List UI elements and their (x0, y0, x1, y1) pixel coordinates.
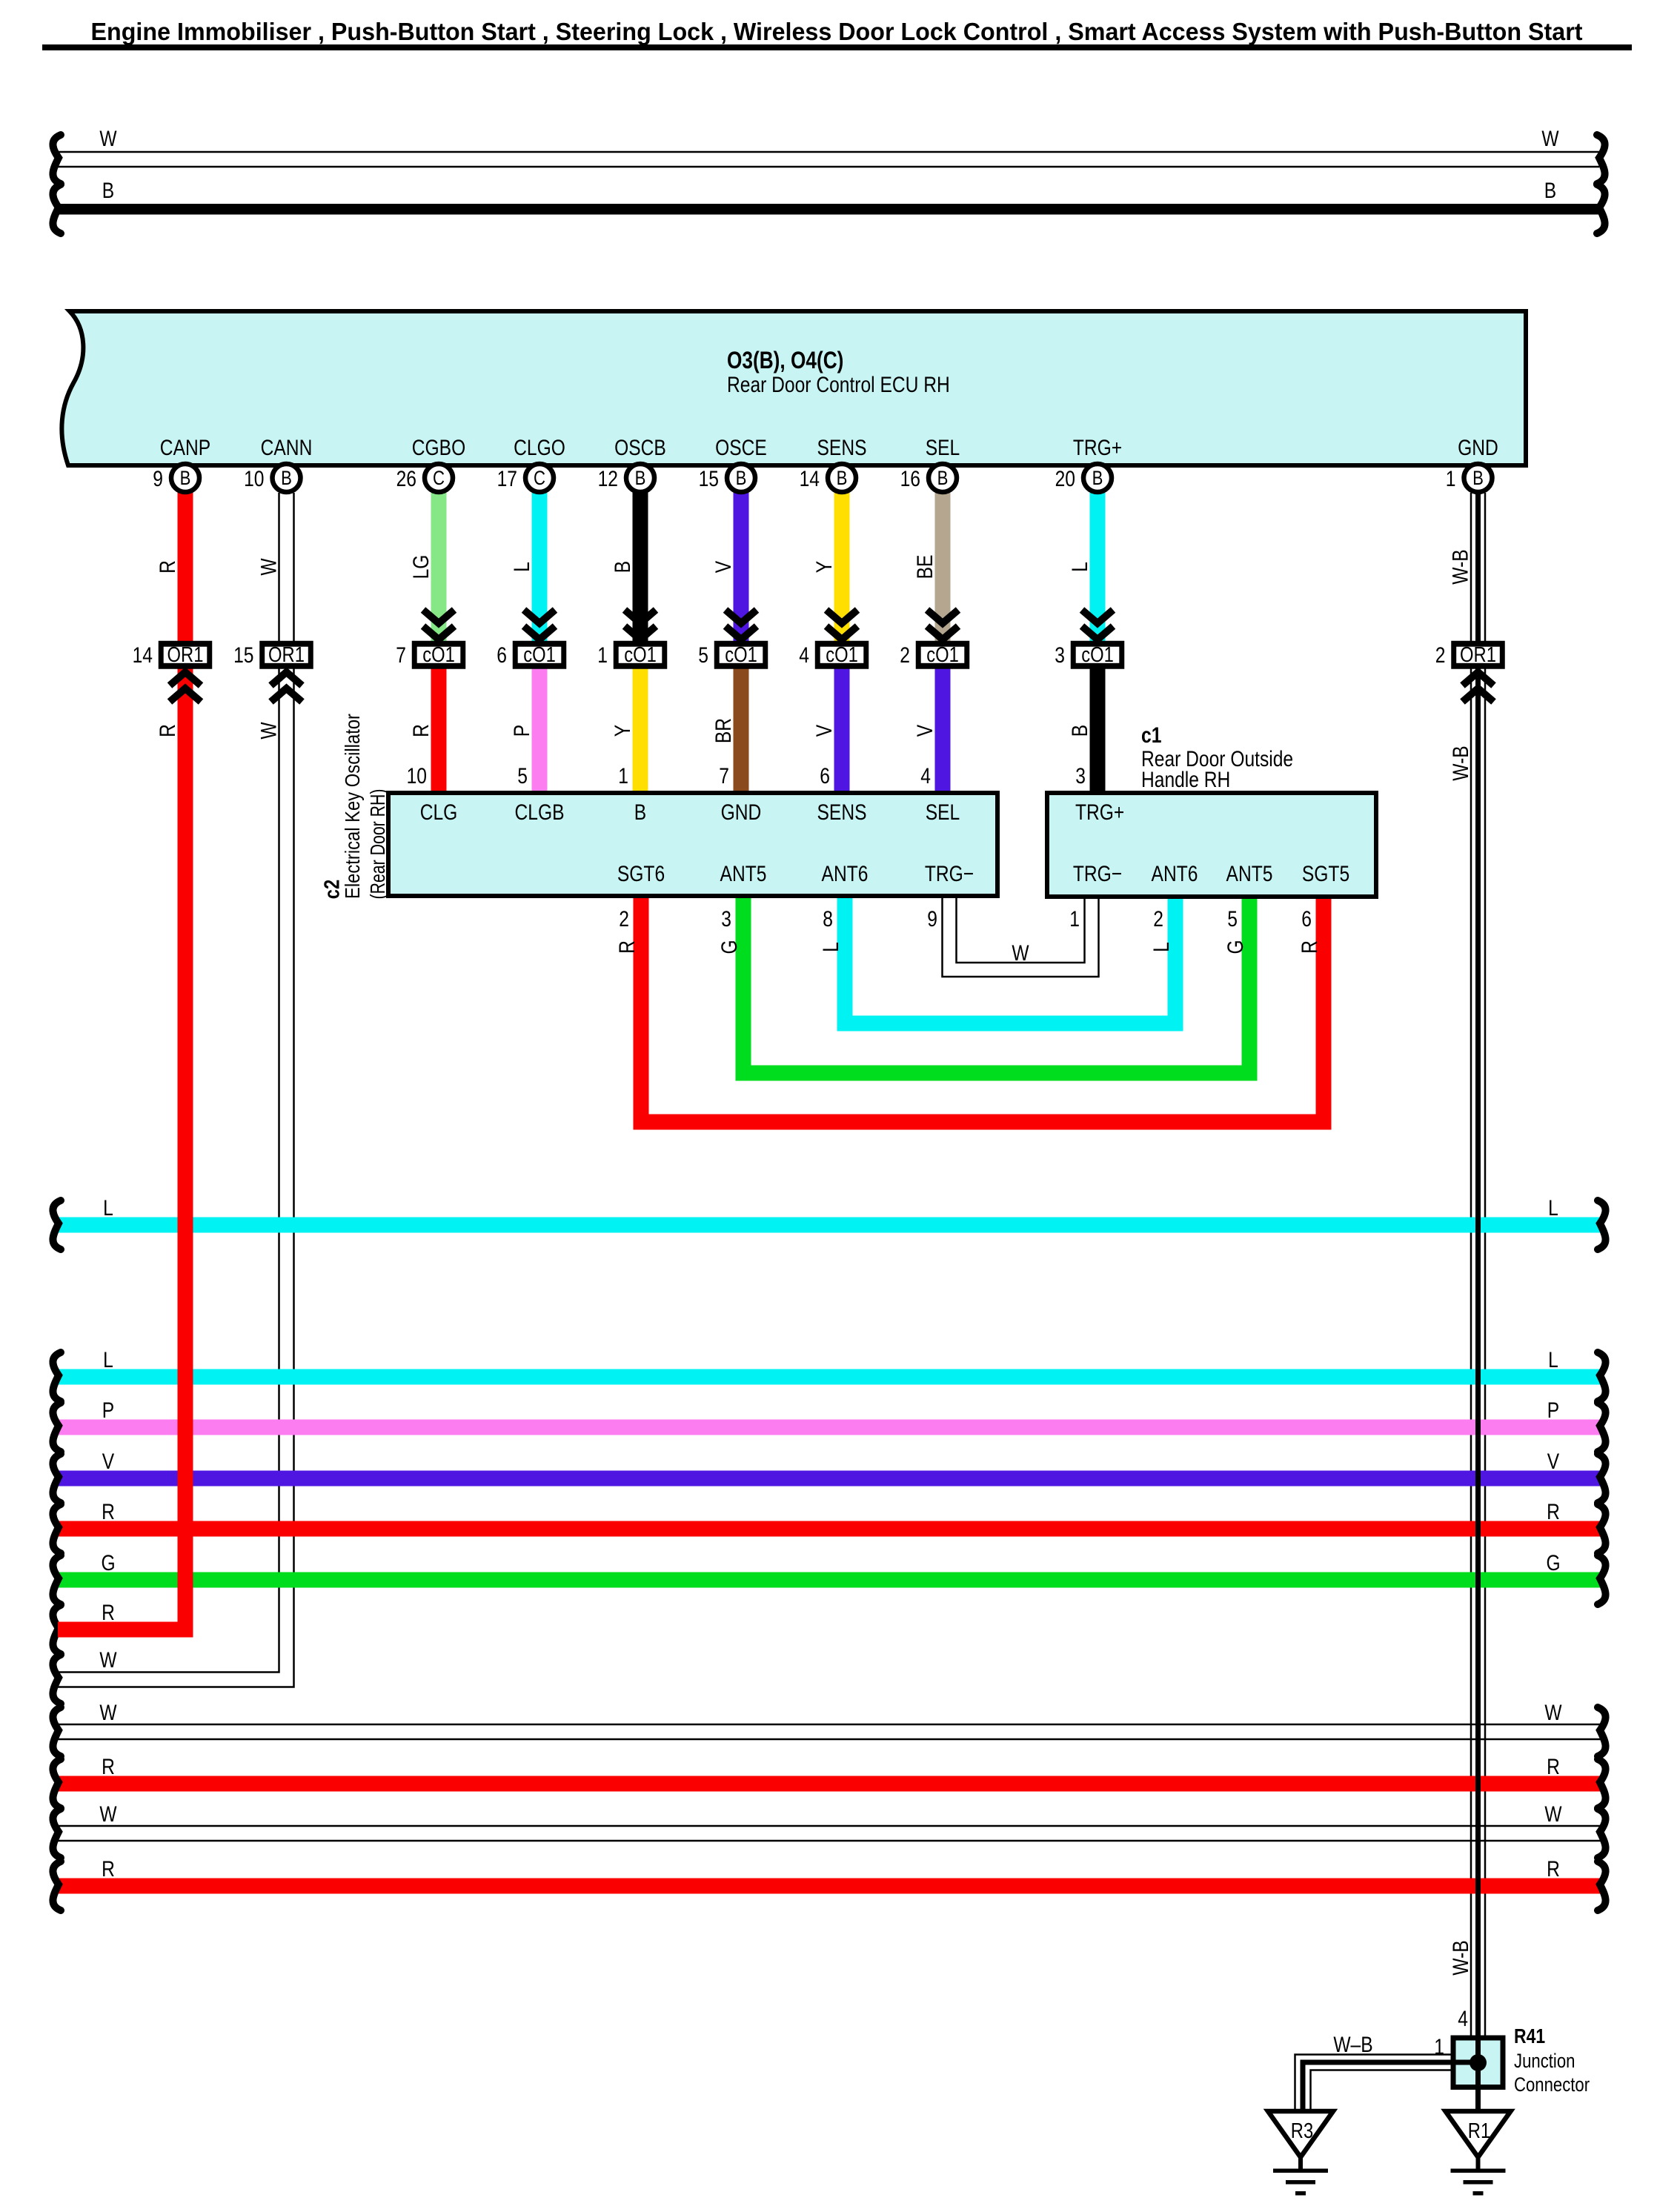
svg-text:6: 6 (1301, 907, 1312, 931)
svg-text:W–B: W–B (1333, 2033, 1372, 2057)
svg-text:W: W (99, 127, 117, 151)
svg-text:14: 14 (133, 643, 153, 668)
wire W from CANN pin 10 down to left (elbow) (58, 493, 294, 1687)
svg-text:R: R (409, 724, 434, 737)
wire W top bus (53, 127, 1604, 184)
svg-text:B: B (1068, 725, 1092, 737)
block c2 Electrical Key Oscillator (Rear Door RH) (320, 714, 997, 900)
wire R from CANP connector down, elbow left (58, 489, 185, 1630)
svg-text:L: L (103, 1348, 113, 1372)
wire B segment from OSCB pin (611, 489, 640, 652)
wire R horizontal y=2545 (53, 1857, 1605, 1910)
svg-text:OR1: OR1 (167, 643, 204, 667)
connector 5 cO1 at OSCE (698, 610, 766, 668)
svg-text:W: W (256, 558, 281, 576)
svg-text:12: 12 (598, 467, 618, 491)
wire W-B segment from GND pin (1448, 549, 1472, 584)
wire W horizontal y=2474 (53, 1802, 1605, 1858)
svg-text:SENS: SENS (817, 800, 867, 825)
ground R1 (1446, 2111, 1511, 2196)
svg-text:R: R (615, 940, 640, 954)
wire P horizontal y=1926 (53, 1398, 1605, 1452)
ECU block O3(B), O4(C) Rear Door Control ECU RH (62, 311, 1526, 465)
wire R horizontal y=2063 (53, 1500, 1605, 1553)
svg-text:Y: Y (611, 725, 635, 737)
svg-text:P: P (1547, 1398, 1559, 1423)
svg-text:26: 26 (396, 467, 416, 491)
wire R below OR1 (CANP) label (156, 724, 180, 737)
wire W horizontal y=2266 (53, 1648, 117, 1704)
wire W below OR1 (CANN) label (256, 722, 281, 740)
svg-text:W: W (1012, 941, 1029, 966)
svg-text:B: B (736, 467, 747, 489)
title: system names (42, 18, 1632, 50)
svg-text:R: R (1547, 1857, 1560, 1881)
svg-text:Electrical Key Oscillator: Electrical Key Oscillator (341, 714, 364, 899)
svg-text:O3(B), O4(C): O3(B), O4(C) (727, 347, 843, 373)
svg-text:17: 17 (497, 467, 517, 491)
ECU pin 14 (B) for SENS (800, 464, 856, 492)
svg-text:CLGB: CLGB (515, 800, 565, 825)
svg-text:R: R (102, 1601, 115, 1625)
wire L horizontal y=1858 (53, 1348, 1605, 1401)
wire B segment from connector cO1 to block pin 3 (1068, 660, 1098, 796)
svg-text:L: L (510, 562, 534, 572)
connector 2 OR1 at GND (1435, 643, 1503, 702)
wire G U-loop ANT5 (c2 pin 3 to c1 pin 5) (717, 896, 1249, 1073)
svg-text:L: L (819, 942, 843, 952)
svg-text:SEL: SEL (926, 436, 960, 460)
svg-text:OR1: OR1 (1460, 643, 1496, 667)
svg-text:2: 2 (1153, 907, 1163, 931)
svg-text:(Rear Door RH): (Rear Door RH) (366, 789, 389, 900)
svg-text:c2: c2 (320, 880, 344, 899)
svg-text:R: R (102, 1500, 115, 1524)
svg-text:V: V (102, 1449, 114, 1474)
svg-text:1: 1 (1434, 2035, 1444, 2059)
svg-text:5: 5 (698, 643, 708, 668)
wire Y segment from connector cO1 to block pin 1 (611, 660, 640, 796)
wire W-B black center stripe (1475, 493, 1481, 2038)
svg-text:cO1: cO1 (725, 643, 757, 667)
ECU pin 20 (B) for TRG+ (1055, 464, 1112, 492)
block bottom pin numbers (619, 907, 1312, 931)
svg-text:TRG+: TRG+ (1075, 800, 1124, 825)
svg-text:ANT6: ANT6 (1152, 862, 1198, 886)
svg-text:R1: R1 (1468, 2119, 1490, 2143)
svg-text:cO1: cO1 (422, 643, 455, 667)
svg-text:BR: BR (711, 718, 736, 743)
svg-text:TRG−: TRG− (925, 862, 974, 886)
svg-text:G: G (1223, 940, 1248, 954)
svg-text:R: R (156, 724, 180, 737)
svg-text:SGT6: SGT6 (617, 862, 665, 886)
svg-text:1: 1 (597, 643, 608, 668)
svg-text:16: 16 (900, 467, 920, 491)
svg-text:CLGO: CLGO (514, 436, 565, 460)
wire Y segment from SENS pin (812, 489, 842, 652)
svg-text:R41: R41 (1514, 2025, 1545, 2047)
svg-text:L: L (1548, 1348, 1558, 1372)
svg-text:10: 10 (407, 764, 427, 788)
svg-text:R: R (102, 1755, 115, 1779)
svg-text:B: B (281, 467, 292, 489)
svg-text:R: R (102, 1857, 115, 1881)
wire G horizontal y=2132 (53, 1551, 1605, 1604)
svg-text:B: B (635, 467, 646, 489)
svg-text:1: 1 (1069, 907, 1080, 931)
svg-text:9: 9 (153, 467, 163, 491)
wire W horizontal y=2337 (53, 1701, 1605, 1756)
block c1 Rear Door Outside Handle RH (1047, 723, 1376, 897)
ECU pin 12 (B) for OSCB (598, 464, 654, 492)
svg-text:W: W (1544, 1701, 1562, 1725)
svg-text:SGT5: SGT5 (1302, 862, 1349, 886)
svg-text:B: B (102, 179, 114, 203)
ECU pin 16 (B) for SEL (900, 464, 957, 492)
svg-text:L: L (1548, 1196, 1558, 1220)
svg-text:5: 5 (517, 764, 528, 788)
svg-text:6: 6 (497, 643, 507, 668)
svg-text:L: L (1149, 942, 1174, 952)
svg-text:2: 2 (1435, 643, 1446, 668)
ground R3 (1268, 2111, 1333, 2196)
svg-text:P: P (102, 1398, 114, 1423)
svg-text:L: L (103, 1196, 113, 1220)
svg-text:GND: GND (1458, 436, 1498, 460)
svg-text:SEL: SEL (926, 800, 960, 825)
svg-text:L: L (1068, 562, 1092, 572)
svg-text:OSCB: OSCB (614, 436, 666, 460)
svg-text:OR1: OR1 (268, 643, 305, 667)
svg-text:4: 4 (1458, 2007, 1468, 2031)
svg-text:CGBO: CGBO (412, 436, 465, 460)
wire L segment from TRG+ pin (1068, 489, 1098, 652)
svg-text:CLG: CLG (420, 800, 458, 825)
svg-text:V: V (812, 725, 837, 737)
svg-text:W: W (99, 1802, 117, 1827)
svg-text:ANT6: ANT6 (822, 862, 869, 886)
svg-text:cO1: cO1 (926, 643, 959, 667)
svg-text:3: 3 (1075, 764, 1086, 788)
svg-text:20: 20 (1055, 467, 1075, 491)
wire V segment from connector cO1 to block pin 6 (812, 660, 842, 796)
wire R horizontal y=2407 (53, 1755, 1605, 1808)
svg-text:V: V (913, 725, 937, 737)
ECU pin 26 (C) for CGBO (396, 464, 453, 492)
svg-text:B: B (1472, 467, 1484, 489)
svg-text:ANT5: ANT5 (720, 862, 767, 886)
svg-text:G: G (101, 1551, 115, 1575)
svg-text:Connector: Connector (1514, 2073, 1590, 2096)
wire V segment from OSCE pin (711, 489, 741, 652)
svg-text:R3: R3 (1291, 2119, 1313, 2143)
svg-text:2: 2 (900, 643, 910, 668)
svg-text:10: 10 (244, 467, 264, 491)
svg-text:GND: GND (721, 800, 762, 825)
svg-text:B: B (1092, 467, 1103, 489)
wire R U-loop SGT (c2 pin 2 to c1 pin 6) (615, 896, 1324, 1122)
wire B top bus (53, 179, 1604, 233)
wire L horizontal y=1653 (53, 1196, 1605, 1249)
wire BR segment from connector cO1 to block pin 7 (711, 660, 741, 796)
svg-text:8: 8 (823, 907, 833, 931)
svg-text:14: 14 (800, 467, 820, 491)
svg-text:cO1: cO1 (1081, 643, 1114, 667)
wire W-B flank lines from GND pin 1 down to R41 (1471, 493, 1485, 2039)
svg-text:B: B (1544, 179, 1556, 203)
svg-text:P: P (510, 725, 534, 737)
connector 7 cO1 at CGBO (396, 610, 463, 668)
svg-text:c1: c1 (1141, 723, 1161, 748)
svg-text:W-B: W-B (1449, 745, 1473, 780)
connector 1 cO1 at OSCB (597, 610, 665, 668)
svg-text:4: 4 (799, 643, 809, 668)
wire P segment from connector cO1 to block pin 5 (510, 660, 539, 796)
svg-text:R: R (156, 560, 180, 574)
svg-text:cO1: cO1 (826, 643, 858, 667)
ECU pin 15 (B) for OSCE (699, 464, 755, 492)
svg-text:B: B (611, 561, 635, 573)
ECU pin 10 (B) for CANN (244, 464, 300, 492)
wire L segment from CLGO pin (510, 489, 539, 652)
connector 6 cO1 at CLGO (497, 610, 564, 668)
svg-text:4: 4 (920, 764, 931, 788)
svg-text:V: V (1547, 1449, 1559, 1474)
svg-text:TRG+: TRG+ (1073, 436, 1122, 460)
svg-text:Handle RH: Handle RH (1141, 768, 1230, 792)
ECU pin 17 (C) for CLGO (497, 464, 554, 492)
svg-text:R: R (1547, 1500, 1560, 1524)
svg-text:5: 5 (1227, 907, 1238, 931)
svg-text:Y: Y (812, 561, 837, 573)
svg-text:15: 15 (233, 643, 253, 668)
wire R horizontal y=2199 (53, 1601, 114, 1654)
svg-text:B: B (837, 467, 848, 489)
svg-text:cO1: cO1 (523, 643, 556, 667)
svg-text:7: 7 (719, 764, 729, 788)
wire L U-loop ANT6 (c2 pin 8 to c1 pin 2) (819, 896, 1175, 1023)
connector 15 OR1 at CANN (233, 643, 311, 702)
svg-text:3: 3 (721, 907, 731, 931)
svg-text:CANN: CANN (261, 436, 313, 460)
svg-text:V: V (711, 561, 736, 573)
svg-text:OSCE: OSCE (715, 436, 767, 460)
junction connector R41 (1453, 2025, 1590, 2113)
svg-text:Junction: Junction (1514, 2050, 1575, 2072)
svg-text:ANT5: ANT5 (1226, 862, 1273, 886)
svg-text:Rear Door Control ECU RH: Rear Door Control ECU RH (727, 373, 950, 397)
ECU pin 1 (B) for GND (1446, 464, 1492, 492)
wire R segment from connector cO1 to block pin 10 (407, 660, 439, 796)
wire R segment from CANP pin (156, 489, 185, 652)
svg-text:B: B (634, 800, 646, 825)
svg-text:CANP: CANP (160, 436, 210, 460)
svg-text:C: C (534, 467, 545, 489)
connector 3 cO1 at TRG+ (1055, 610, 1122, 668)
svg-text:R: R (1298, 940, 1322, 954)
svg-text:B: B (937, 467, 949, 489)
svg-text:Engine Immobiliser , Push-Butt: Engine Immobiliser , Push-Button Start ,… (91, 18, 1583, 45)
wire V horizontal y=1995 (53, 1449, 1605, 1503)
wire W-B elbow from R41 pin 1 to ground R3 (1295, 2033, 1454, 2111)
svg-text:R: R (1547, 1755, 1560, 1779)
svg-text:6: 6 (820, 764, 830, 788)
wire W-B label above R41 (1449, 1940, 1473, 2031)
svg-text:1: 1 (1446, 467, 1456, 491)
svg-text:SENS: SENS (817, 436, 867, 460)
svg-text:W-B: W-B (1448, 549, 1472, 584)
svg-text:W-B: W-B (1449, 1940, 1473, 1975)
svg-text:C: C (433, 467, 445, 489)
svg-text:9: 9 (927, 907, 937, 931)
svg-text:G: G (1546, 1551, 1560, 1575)
ECU pin 9 (B) for CANP (153, 464, 199, 492)
svg-text:cO1: cO1 (624, 643, 657, 667)
ECU pin name labels (160, 436, 1498, 460)
svg-text:B: B (180, 467, 191, 489)
connector 4 cO1 at SENS (799, 610, 866, 668)
svg-text:W: W (99, 1701, 117, 1725)
svg-text:W: W (1541, 127, 1559, 151)
wire W segment from CANN pin (256, 558, 281, 576)
svg-text:BE: BE (913, 555, 937, 579)
connector 14 OR1 at CANP (133, 643, 210, 702)
wire BE segment from SEL pin (913, 489, 943, 652)
svg-text:15: 15 (699, 467, 719, 491)
svg-text:W: W (99, 1648, 117, 1673)
connector 2 cO1 at SEL (900, 610, 967, 668)
svg-text:7: 7 (396, 643, 406, 668)
svg-text:TRG−: TRG− (1073, 862, 1122, 886)
svg-text:3: 3 (1055, 643, 1065, 668)
wire W-B below OR1 (GND) label (1449, 745, 1473, 780)
svg-text:2: 2 (619, 907, 629, 931)
wire LG segment from CGBO pin (409, 489, 439, 652)
svg-text:LG: LG (409, 555, 434, 579)
svg-text:G: G (717, 940, 742, 954)
wire V segment from connector cO1 to block pin 4 (913, 660, 943, 796)
svg-text:1: 1 (618, 764, 628, 788)
svg-text:W: W (256, 722, 281, 740)
svg-text:W: W (1544, 1802, 1562, 1827)
wire W U-loop TRG- (c2 pin 9 to c1 pin 1) (943, 896, 1099, 977)
